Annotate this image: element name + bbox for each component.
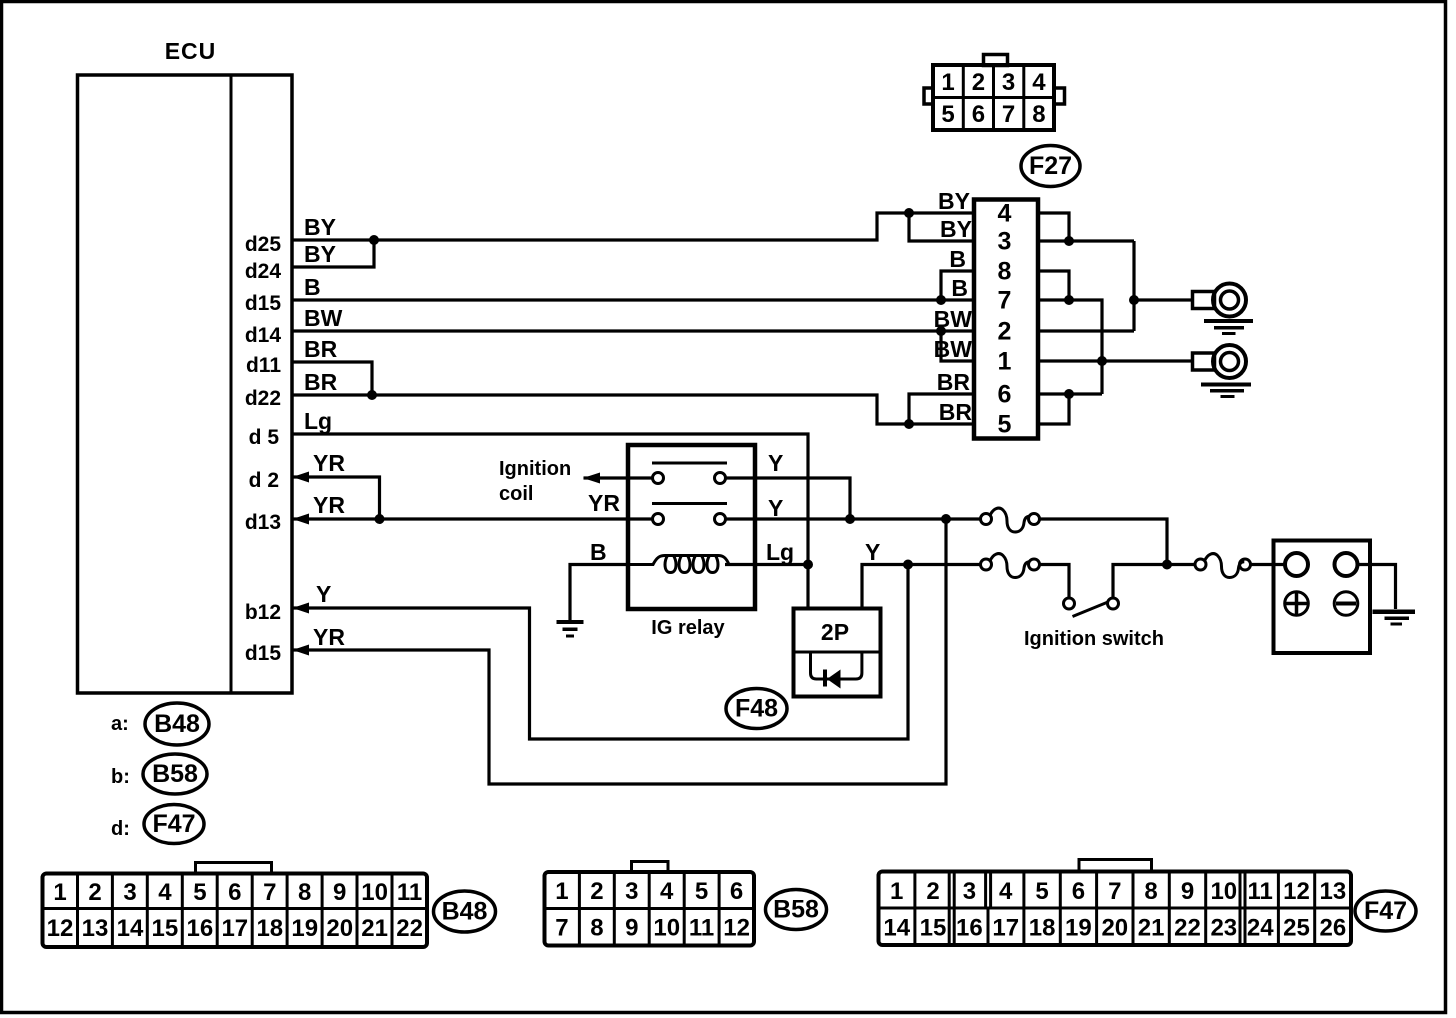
svg-text:11: 11	[397, 879, 422, 906]
svg-text:3: 3	[1002, 69, 1015, 96]
svg-text:BR: BR	[304, 369, 338, 395]
svg-text:d 2: d 2	[249, 469, 279, 492]
svg-text:6: 6	[228, 879, 241, 906]
svg-text:1: 1	[555, 878, 568, 905]
svg-text:17: 17	[221, 915, 248, 942]
svg-text:21: 21	[361, 915, 388, 942]
svg-text:Y: Y	[316, 581, 331, 607]
svg-text:BY: BY	[304, 241, 336, 267]
svg-text:22: 22	[1174, 915, 1201, 942]
svg-text:4: 4	[1032, 69, 1046, 96]
svg-text:21: 21	[1138, 915, 1165, 942]
svg-text:9: 9	[1181, 878, 1194, 905]
svg-text:3: 3	[963, 878, 976, 905]
svg-text:2: 2	[972, 69, 985, 96]
svg-text:5: 5	[941, 101, 954, 128]
svg-text:6: 6	[972, 101, 985, 128]
svg-text:d15: d15	[245, 642, 282, 665]
svg-text:B58: B58	[773, 896, 819, 924]
svg-text:d15: d15	[245, 292, 282, 315]
svg-text:d11: d11	[246, 354, 281, 377]
svg-text:9: 9	[333, 879, 346, 906]
svg-text:11: 11	[689, 915, 714, 942]
svg-text:4: 4	[999, 878, 1013, 905]
svg-text:YR: YR	[313, 492, 345, 518]
svg-text:8: 8	[1032, 101, 1045, 128]
svg-text:Y: Y	[768, 495, 783, 521]
svg-text:15: 15	[920, 915, 947, 942]
svg-text:16: 16	[956, 915, 983, 942]
svg-text:7: 7	[1002, 101, 1015, 128]
svg-text:8: 8	[590, 915, 603, 942]
svg-text:B: B	[949, 246, 966, 272]
svg-text:4: 4	[998, 200, 1012, 228]
svg-text:Lg: Lg	[766, 539, 794, 565]
svg-text:BY: BY	[938, 188, 970, 214]
svg-text:2P: 2P	[821, 619, 849, 645]
svg-text:2: 2	[590, 878, 603, 905]
svg-text:F48: F48	[735, 695, 778, 723]
svg-text:coil: coil	[499, 483, 533, 505]
svg-text:5: 5	[998, 411, 1012, 439]
svg-text:19: 19	[291, 915, 318, 942]
svg-text:1: 1	[890, 878, 903, 905]
svg-text:IG relay: IG relay	[651, 617, 725, 639]
svg-text:7: 7	[998, 287, 1012, 315]
svg-text:BW: BW	[304, 305, 343, 331]
svg-text:12: 12	[1283, 878, 1310, 905]
svg-text:6: 6	[730, 878, 743, 905]
svg-text:18: 18	[1029, 915, 1056, 942]
svg-text:15: 15	[152, 915, 179, 942]
svg-text:Y: Y	[865, 539, 880, 565]
svg-text:1: 1	[53, 879, 66, 906]
svg-text:5: 5	[695, 878, 708, 905]
svg-text:2: 2	[88, 879, 101, 906]
svg-text:3: 3	[123, 879, 136, 906]
svg-text:a:: a:	[111, 713, 129, 735]
svg-text:Ignition: Ignition	[499, 458, 571, 480]
svg-text:13: 13	[1320, 878, 1347, 905]
svg-text:3: 3	[625, 878, 638, 905]
svg-text:6: 6	[1072, 878, 1085, 905]
svg-text:d13: d13	[245, 511, 281, 534]
svg-text:10: 10	[653, 915, 680, 942]
svg-text:F47: F47	[1364, 897, 1407, 925]
svg-text:20: 20	[1101, 915, 1128, 942]
svg-text:24: 24	[1247, 915, 1274, 942]
svg-text:2: 2	[998, 318, 1012, 346]
svg-text:10: 10	[1210, 878, 1237, 905]
svg-text:20: 20	[326, 915, 353, 942]
svg-text:ECU: ECU	[165, 38, 217, 64]
svg-text:19: 19	[1065, 915, 1092, 942]
svg-text:14: 14	[883, 915, 910, 942]
svg-text:B: B	[304, 274, 321, 300]
svg-text:4: 4	[158, 879, 172, 906]
svg-text:26: 26	[1320, 915, 1347, 942]
svg-text:d22: d22	[245, 387, 281, 410]
svg-text:BW: BW	[934, 336, 973, 362]
svg-text:18: 18	[256, 915, 283, 942]
svg-text:d14: d14	[245, 324, 282, 347]
svg-text:2: 2	[926, 878, 939, 905]
svg-text:YR: YR	[588, 490, 620, 516]
svg-text:B58: B58	[152, 760, 198, 788]
svg-text:14: 14	[117, 915, 144, 942]
svg-text:d25: d25	[245, 233, 282, 256]
svg-text:BR: BR	[304, 336, 338, 362]
svg-text:7: 7	[1108, 878, 1121, 905]
svg-text:16: 16	[187, 915, 214, 942]
svg-text:F47: F47	[152, 810, 195, 838]
svg-text:3: 3	[998, 228, 1012, 256]
svg-text:1: 1	[941, 69, 954, 96]
svg-text:F27: F27	[1029, 152, 1072, 180]
svg-text:BR: BR	[939, 399, 973, 425]
svg-text:9: 9	[625, 915, 638, 942]
svg-text:5: 5	[193, 879, 206, 906]
svg-text:8: 8	[298, 879, 311, 906]
svg-text:10: 10	[361, 879, 388, 906]
svg-text:17: 17	[992, 915, 1019, 942]
svg-text:25: 25	[1283, 915, 1310, 942]
svg-text:8: 8	[998, 258, 1012, 286]
svg-text:b:: b:	[111, 766, 130, 788]
svg-text:Ignition switch: Ignition switch	[1024, 628, 1164, 650]
svg-text:BY: BY	[940, 216, 972, 242]
svg-text:B: B	[951, 275, 968, 301]
svg-text:d24: d24	[245, 260, 282, 283]
svg-text:13: 13	[82, 915, 109, 942]
svg-text:d 5: d 5	[249, 426, 280, 449]
svg-text:8: 8	[1144, 878, 1157, 905]
svg-text:11: 11	[1248, 878, 1273, 905]
svg-text:7: 7	[555, 915, 568, 942]
svg-text:d:: d:	[111, 818, 130, 840]
svg-text:4: 4	[660, 878, 674, 905]
svg-text:6: 6	[998, 381, 1012, 409]
svg-text:12: 12	[723, 915, 750, 942]
svg-text:B: B	[590, 539, 607, 565]
svg-text:Lg: Lg	[304, 408, 332, 434]
svg-text:B48: B48	[442, 898, 488, 926]
svg-text:7: 7	[263, 879, 276, 906]
svg-text:YR: YR	[313, 450, 345, 476]
svg-text:23: 23	[1210, 915, 1237, 942]
svg-text:22: 22	[396, 915, 423, 942]
svg-text:YR: YR	[313, 624, 345, 650]
svg-text:Y: Y	[768, 450, 783, 476]
svg-text:B48: B48	[154, 710, 200, 738]
svg-text:BY: BY	[304, 214, 336, 240]
svg-text:5: 5	[1035, 878, 1048, 905]
svg-text:BR: BR	[937, 369, 971, 395]
svg-text:b12: b12	[245, 601, 281, 624]
svg-text:12: 12	[47, 915, 74, 942]
svg-text:1: 1	[998, 348, 1012, 376]
